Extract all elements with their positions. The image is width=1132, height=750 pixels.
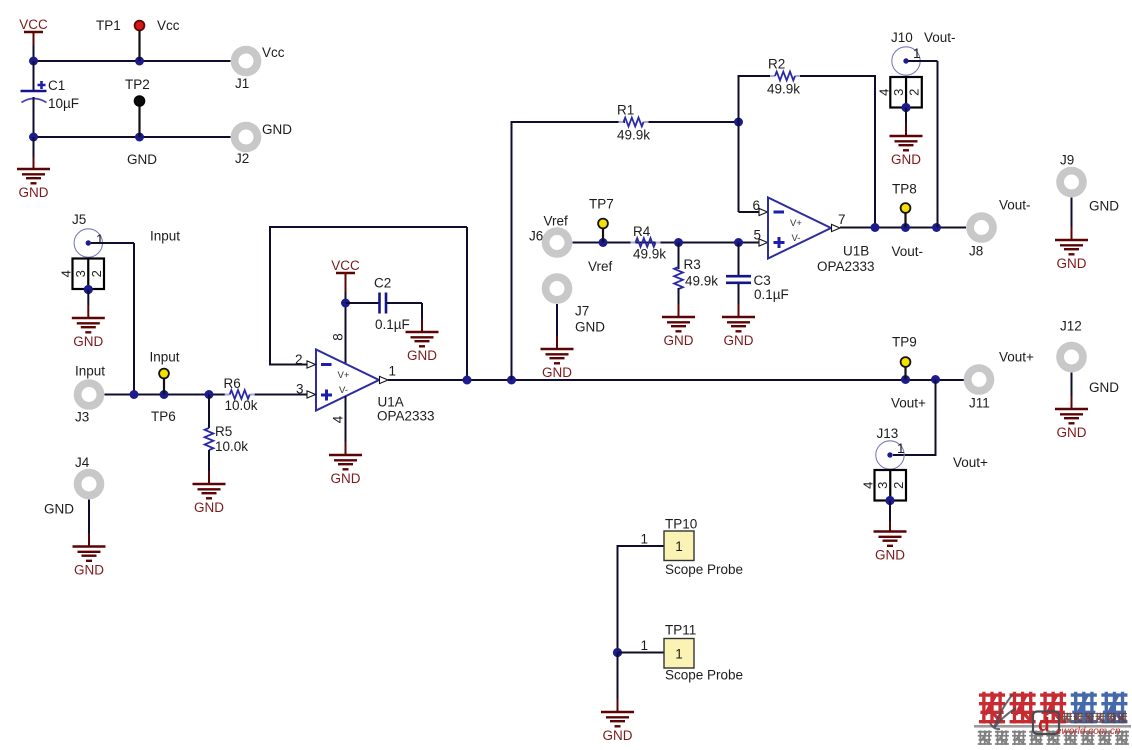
svg-text:TP10: TP10 xyxy=(665,517,697,532)
watermark logo xyxy=(974,692,1131,745)
connector J10 circle xyxy=(892,47,920,75)
ground below C1 xyxy=(17,169,50,200)
svg-text:4: 4 xyxy=(59,270,74,277)
svg-text:GND: GND xyxy=(891,152,921,167)
wire feedback loop U1A xyxy=(269,226,467,380)
node R1 tap xyxy=(507,376,516,385)
label J7 xyxy=(575,304,589,319)
label Vout+ below xyxy=(891,396,926,411)
svg-text:OPA2333: OPA2333 xyxy=(377,409,435,424)
svg-text:V-: V- xyxy=(339,385,348,396)
pin 1 label TP10 xyxy=(640,532,648,547)
pin 5 arrow xyxy=(759,239,768,246)
wire U1A output rail xyxy=(388,379,964,381)
svg-text:V+: V+ xyxy=(338,370,350,381)
wire C1 to ground xyxy=(33,137,35,169)
svg-text:0.1µF: 0.1µF xyxy=(754,287,789,302)
ground below J7 xyxy=(541,349,574,380)
wire R2 top left xyxy=(738,75,776,77)
connector J5 shield box xyxy=(59,259,105,290)
node R2 join xyxy=(871,223,880,232)
svg-text:V+: V+ xyxy=(790,218,802,229)
svg-text:GND: GND xyxy=(1057,256,1087,271)
svg-text:GND: GND xyxy=(724,333,754,348)
value R4 49.9k xyxy=(633,247,666,262)
label TP1 xyxy=(96,18,121,33)
node J10 join xyxy=(932,223,941,232)
connector J12 xyxy=(1060,346,1083,369)
resistor R1 xyxy=(619,118,649,127)
label U1B xyxy=(843,244,869,259)
svg-text:4: 4 xyxy=(861,482,876,489)
svg-text:TP8: TP8 xyxy=(892,182,917,197)
resistor R6 xyxy=(225,390,255,399)
svg-text:TP7: TP7 xyxy=(589,197,614,212)
ground below J10 xyxy=(890,136,923,167)
pin 1 output arrow xyxy=(380,376,389,383)
wire J13 shield to ground xyxy=(889,501,891,532)
svg-text:TP9: TP9 xyxy=(892,335,917,350)
power symbol VCC net xyxy=(19,17,48,45)
svg-text:2: 2 xyxy=(891,482,906,489)
wire Vref rail xyxy=(573,242,760,244)
svg-text:R6: R6 xyxy=(224,376,241,391)
wire TP11 stub xyxy=(618,652,665,654)
label Vref at J6 xyxy=(544,214,569,229)
svg-text:R1: R1 xyxy=(617,103,634,118)
connector J9 xyxy=(1060,171,1083,194)
label TP11 xyxy=(665,623,696,638)
label R2 xyxy=(768,57,785,72)
label C3 xyxy=(754,273,771,288)
pin 6 arrow xyxy=(759,208,768,215)
value R5 10.0k xyxy=(215,439,248,454)
svg-text:1: 1 xyxy=(96,232,104,247)
svg-text:J10: J10 xyxy=(891,30,913,45)
svg-text:GND: GND xyxy=(262,122,292,137)
label GND at J12 xyxy=(1089,380,1119,395)
node J5 shield xyxy=(84,285,93,294)
wire pin6 stub xyxy=(739,211,760,213)
svg-text:C3: C3 xyxy=(754,273,771,288)
label J12 xyxy=(1060,319,1082,334)
wire R1 to junction xyxy=(649,121,739,123)
svg-text:5: 5 xyxy=(753,228,761,243)
label OPA2333 U1A xyxy=(377,409,435,424)
svg-text:GND: GND xyxy=(74,563,104,578)
wire R2 riser xyxy=(738,75,740,212)
svg-text:49.9k: 49.9k xyxy=(685,274,718,289)
ground below R3 xyxy=(662,317,695,348)
pin 1 label J10 xyxy=(913,46,921,61)
test point TP7 xyxy=(598,219,608,243)
label TP8 xyxy=(892,182,917,197)
svg-text:49.9k: 49.9k xyxy=(767,82,800,97)
capacitor C1 xyxy=(21,61,47,137)
svg-text:U1B: U1B xyxy=(843,244,869,259)
wire to R5 xyxy=(208,395,210,429)
label TP2 xyxy=(125,77,150,92)
wire scope to ground xyxy=(617,653,619,713)
node TP7 xyxy=(599,238,608,247)
wire R2 to output xyxy=(800,75,876,228)
label J13 xyxy=(877,426,899,441)
label R1 xyxy=(617,103,634,118)
pin 1 label TP11 xyxy=(640,638,648,653)
svg-text:GND: GND xyxy=(1089,380,1119,395)
svg-text:GND: GND xyxy=(1057,425,1087,440)
ground below C3 xyxy=(722,317,755,348)
label J2 xyxy=(235,151,249,166)
svg-text:Scope Probe: Scope Probe xyxy=(665,668,743,683)
svg-text:Scope Probe: Scope Probe xyxy=(665,562,743,577)
svg-text:GND: GND xyxy=(331,471,361,486)
svg-text:J1: J1 xyxy=(235,76,249,91)
label GND at TP2 xyxy=(127,152,157,167)
wire J9 to ground xyxy=(1071,198,1073,241)
connector J6 xyxy=(546,231,569,254)
svg-text:J3: J3 xyxy=(75,410,89,425)
svg-text:Vref: Vref xyxy=(544,214,569,229)
svg-text:TP2: TP2 xyxy=(125,77,150,92)
node TP9 xyxy=(901,375,910,384)
svg-text:GND: GND xyxy=(1089,199,1119,214)
svg-text:1: 1 xyxy=(897,441,905,456)
power symbol VCC at U1A xyxy=(331,258,360,292)
svg-text:Input: Input xyxy=(150,229,180,244)
connector J1 xyxy=(235,50,258,73)
wire J7 to ground xyxy=(556,304,558,349)
svg-text:VCC: VCC xyxy=(19,17,48,32)
svg-text:J7: J7 xyxy=(575,304,589,319)
svg-text:49.9k: 49.9k xyxy=(633,247,666,262)
node VCC-C2 xyxy=(341,299,350,308)
op-amp U1B xyxy=(768,198,831,259)
node VCC-rail TP1 xyxy=(135,57,144,66)
ground below J9 xyxy=(1055,240,1088,271)
label R6 xyxy=(224,376,241,391)
pin 1 label J5 xyxy=(96,232,104,247)
svg-text:R4: R4 xyxy=(633,224,651,239)
test point TP1 xyxy=(135,21,145,61)
wire scope probe net xyxy=(617,545,665,653)
wire R3 to ground xyxy=(678,288,680,317)
svg-text:GND: GND xyxy=(407,348,437,363)
node input R5 tap xyxy=(205,390,214,399)
svg-text:GND: GND xyxy=(542,365,572,380)
label C2 xyxy=(374,276,391,291)
svg-text:Vout-: Vout- xyxy=(924,30,956,45)
svg-text:Vcc: Vcc xyxy=(157,18,180,33)
pin 1 label xyxy=(389,364,397,379)
label TP6 xyxy=(151,409,176,424)
wire J5 to input net xyxy=(91,243,134,395)
node TP8 xyxy=(901,223,910,232)
pin 4 label xyxy=(331,415,346,423)
label Vcc at TP1 xyxy=(157,18,180,33)
label Input at J3 xyxy=(75,364,105,379)
test point TP6 xyxy=(159,369,169,395)
label Input at J5 xyxy=(150,229,180,244)
wire VCC stem xyxy=(33,45,35,61)
label GND at J7 xyxy=(575,320,605,335)
node R3 tap xyxy=(674,238,683,247)
svg-text:GND: GND xyxy=(603,728,633,743)
svg-text:C1: C1 xyxy=(48,78,65,93)
wire C2 left xyxy=(346,302,380,304)
svg-text:1: 1 xyxy=(913,46,921,61)
connector J13 shield box xyxy=(861,470,907,501)
label R4 xyxy=(633,224,651,239)
node R1-R2 junction xyxy=(734,118,743,127)
scope probe TP11 xyxy=(664,639,694,669)
svg-text:TP11: TP11 xyxy=(665,623,696,638)
svg-text:1: 1 xyxy=(675,647,683,662)
svg-text:J5: J5 xyxy=(72,212,86,227)
svg-text:GND: GND xyxy=(73,334,103,349)
label J1 xyxy=(235,76,249,91)
svg-text:R2: R2 xyxy=(768,57,785,72)
svg-text:10.0k: 10.0k xyxy=(225,398,258,413)
svg-text:3: 3 xyxy=(891,89,906,96)
pin 8 label xyxy=(331,333,346,341)
pin 4 wire xyxy=(345,396,347,455)
wire J5 shield to ground xyxy=(87,290,89,319)
svg-text:10.0k: 10.0k xyxy=(215,439,248,454)
label Vout- at J10 xyxy=(924,30,956,45)
svg-text:J2: J2 xyxy=(235,151,249,166)
node input J5 join xyxy=(130,390,139,399)
label R3 xyxy=(684,257,701,272)
svg-text:10µF: 10µF xyxy=(48,96,79,111)
pin 7 output arrow xyxy=(832,224,841,231)
svg-text:Vout+: Vout+ xyxy=(999,350,1034,365)
wire J4 to ground xyxy=(88,500,90,547)
connector J4 xyxy=(78,473,101,496)
label Scope Probe TP10 xyxy=(665,562,743,577)
wire R1 riser xyxy=(511,121,626,380)
svg-text:3: 3 xyxy=(73,270,88,277)
label Vout- at J8 xyxy=(999,198,1031,213)
wire VCC top rail xyxy=(34,60,231,62)
label J11 xyxy=(969,396,990,411)
svg-text:Vout+: Vout+ xyxy=(953,455,988,470)
svg-text:0.1µF: 0.1µF xyxy=(375,317,410,332)
svg-text:eworld.com.cn: eworld.com.cn xyxy=(1056,726,1121,737)
resistor R5 xyxy=(205,428,214,450)
wire J10 to output xyxy=(909,61,938,228)
svg-text:1: 1 xyxy=(640,532,648,547)
wire J12 to ground xyxy=(1071,373,1073,410)
node GND-rail TP2 xyxy=(135,133,144,142)
label Input at TP6 xyxy=(150,350,180,365)
ground below J12 xyxy=(1055,409,1088,440)
svg-text:8: 8 xyxy=(331,333,346,341)
svg-text:J11: J11 xyxy=(969,396,990,411)
label TP9 xyxy=(892,335,917,350)
connector J5 circle xyxy=(74,229,102,257)
pin 1 label J13 xyxy=(897,441,905,456)
svg-text:1: 1 xyxy=(389,364,397,379)
svg-text:GND: GND xyxy=(875,548,905,563)
svg-text:6: 6 xyxy=(752,198,760,213)
svg-text:GND: GND xyxy=(194,500,224,515)
svg-text:GND: GND xyxy=(127,152,157,167)
svg-text:R5: R5 xyxy=(215,424,232,439)
svg-text:2: 2 xyxy=(295,352,303,367)
wire to J13 xyxy=(893,380,937,456)
svg-text:J9: J9 xyxy=(1060,153,1074,168)
svg-text:GND: GND xyxy=(19,185,49,200)
svg-text:Vout-: Vout- xyxy=(892,244,924,259)
label TP10 xyxy=(665,517,697,532)
wire to C3 xyxy=(738,243,740,276)
connector J8 xyxy=(970,216,993,239)
svg-text:J8: J8 xyxy=(969,244,983,259)
svg-text:4: 4 xyxy=(876,89,891,96)
ground below J5 xyxy=(72,318,105,349)
connector J11 xyxy=(968,368,991,391)
test point TP2 xyxy=(135,96,145,137)
svg-text:Vcc: Vcc xyxy=(262,45,285,60)
label Vout+ at J13 xyxy=(953,455,988,470)
pin 6 label xyxy=(752,198,760,213)
label J8 xyxy=(969,244,983,259)
node scope junction xyxy=(613,648,622,657)
value C2 0.1uF xyxy=(375,317,410,332)
node J13 tap xyxy=(931,375,940,384)
ground below C2 xyxy=(406,332,439,363)
ground below J4 xyxy=(73,547,106,578)
svg-text:49.9k: 49.9k xyxy=(617,128,650,143)
label J3 xyxy=(75,410,89,425)
pin 2 label xyxy=(295,352,303,367)
svg-text:J6: J6 xyxy=(529,229,543,244)
wire U1B output rail xyxy=(840,227,966,229)
wire VCC to pin8 xyxy=(345,292,347,364)
svg-text:TP6: TP6 xyxy=(151,409,176,424)
ground below U1A xyxy=(329,455,362,486)
svg-text:OPA2333: OPA2333 xyxy=(817,259,875,274)
label J10 xyxy=(891,30,913,45)
label J4 xyxy=(75,455,90,470)
pin 3 label xyxy=(296,382,304,397)
label Vref below xyxy=(588,259,613,274)
node GND-rail left xyxy=(29,133,38,142)
value R1 49.9k xyxy=(617,128,650,143)
pin 7 label xyxy=(838,212,846,227)
wire R5 to ground xyxy=(208,450,210,484)
svg-text:GND: GND xyxy=(664,333,694,348)
label TP7 xyxy=(589,197,614,212)
wire R6 right segment xyxy=(255,394,308,396)
label Scope Probe TP11 xyxy=(665,668,743,683)
svg-text:3: 3 xyxy=(875,482,890,489)
label GND at J4 xyxy=(44,502,74,517)
label Vout+ at TP9 xyxy=(999,350,1034,365)
svg-text:1: 1 xyxy=(640,638,648,653)
svg-text:VCC: VCC xyxy=(331,258,360,273)
test point TP8 xyxy=(901,203,911,227)
connector J2 xyxy=(235,126,258,149)
svg-text:1: 1 xyxy=(675,539,683,554)
svg-text:J13: J13 xyxy=(877,426,899,441)
svg-text:d: d xyxy=(1038,715,1050,736)
resistor R2 xyxy=(770,72,800,81)
svg-text:2: 2 xyxy=(89,270,104,277)
resistor R3 xyxy=(674,267,683,289)
wire input rail xyxy=(105,394,227,396)
svg-text:2: 2 xyxy=(907,89,922,96)
resistor R4 xyxy=(631,238,661,247)
value C3 0.1uF xyxy=(754,287,789,302)
label OPA2333 U1B xyxy=(817,259,875,274)
label J5 xyxy=(72,212,86,227)
node VCC-rail left xyxy=(29,57,38,66)
label GND at J9 xyxy=(1089,199,1119,214)
svg-text:GND: GND xyxy=(44,502,74,517)
label Vout- below xyxy=(892,244,924,259)
pin 2 arrow xyxy=(307,361,316,368)
ground below J13 xyxy=(874,532,907,563)
wire GND bottom rail xyxy=(34,136,231,138)
label GND at J2 xyxy=(262,122,292,137)
label R5 xyxy=(215,424,232,439)
scope probe TP10 xyxy=(664,531,694,561)
label C1 xyxy=(48,78,65,93)
svg-text:TP1: TP1 xyxy=(96,18,121,33)
ground below scope probes xyxy=(601,712,634,743)
node J13 shield xyxy=(885,496,894,505)
svg-text:U1A: U1A xyxy=(378,395,404,410)
wire J10 shield to ground xyxy=(905,108,907,137)
ground below R5 xyxy=(193,484,226,515)
test point TP9 xyxy=(901,357,911,379)
value R3 49.9k xyxy=(685,274,718,289)
node input TP6 xyxy=(160,390,169,399)
wire to R3 xyxy=(678,243,680,270)
svg-text:Vout+: Vout+ xyxy=(891,396,926,411)
label Vcc at J1 xyxy=(262,45,285,60)
svg-text:J12: J12 xyxy=(1060,319,1082,334)
svg-text:Input: Input xyxy=(75,364,105,379)
node J10 shield xyxy=(901,103,910,112)
wire C2 to ground xyxy=(387,303,423,332)
svg-text:Input: Input xyxy=(150,350,180,365)
svg-text:3: 3 xyxy=(296,382,304,397)
svg-text:J4: J4 xyxy=(75,455,90,470)
value 10uF xyxy=(48,96,79,111)
value R6 10.0k xyxy=(225,398,258,413)
node feedback join xyxy=(463,376,472,385)
svg-text:7: 7 xyxy=(838,212,846,227)
pin 5 label xyxy=(753,228,761,243)
op-amp U1A xyxy=(316,350,379,411)
svg-text:R3: R3 xyxy=(684,257,701,272)
label J9 xyxy=(1060,153,1074,168)
capacitor C2 xyxy=(380,293,387,314)
svg-text:V-: V- xyxy=(792,233,801,244)
pin 3 arrow xyxy=(307,391,316,398)
value R2 49.9k xyxy=(767,82,800,97)
svg-text:Vref: Vref xyxy=(588,259,613,274)
connector J10 shield box xyxy=(876,77,922,108)
connector J7 xyxy=(546,277,569,300)
svg-text:C2: C2 xyxy=(374,276,391,291)
label U1A xyxy=(378,395,404,410)
svg-text:GND: GND xyxy=(575,320,605,335)
capacitor C3 xyxy=(726,276,751,283)
